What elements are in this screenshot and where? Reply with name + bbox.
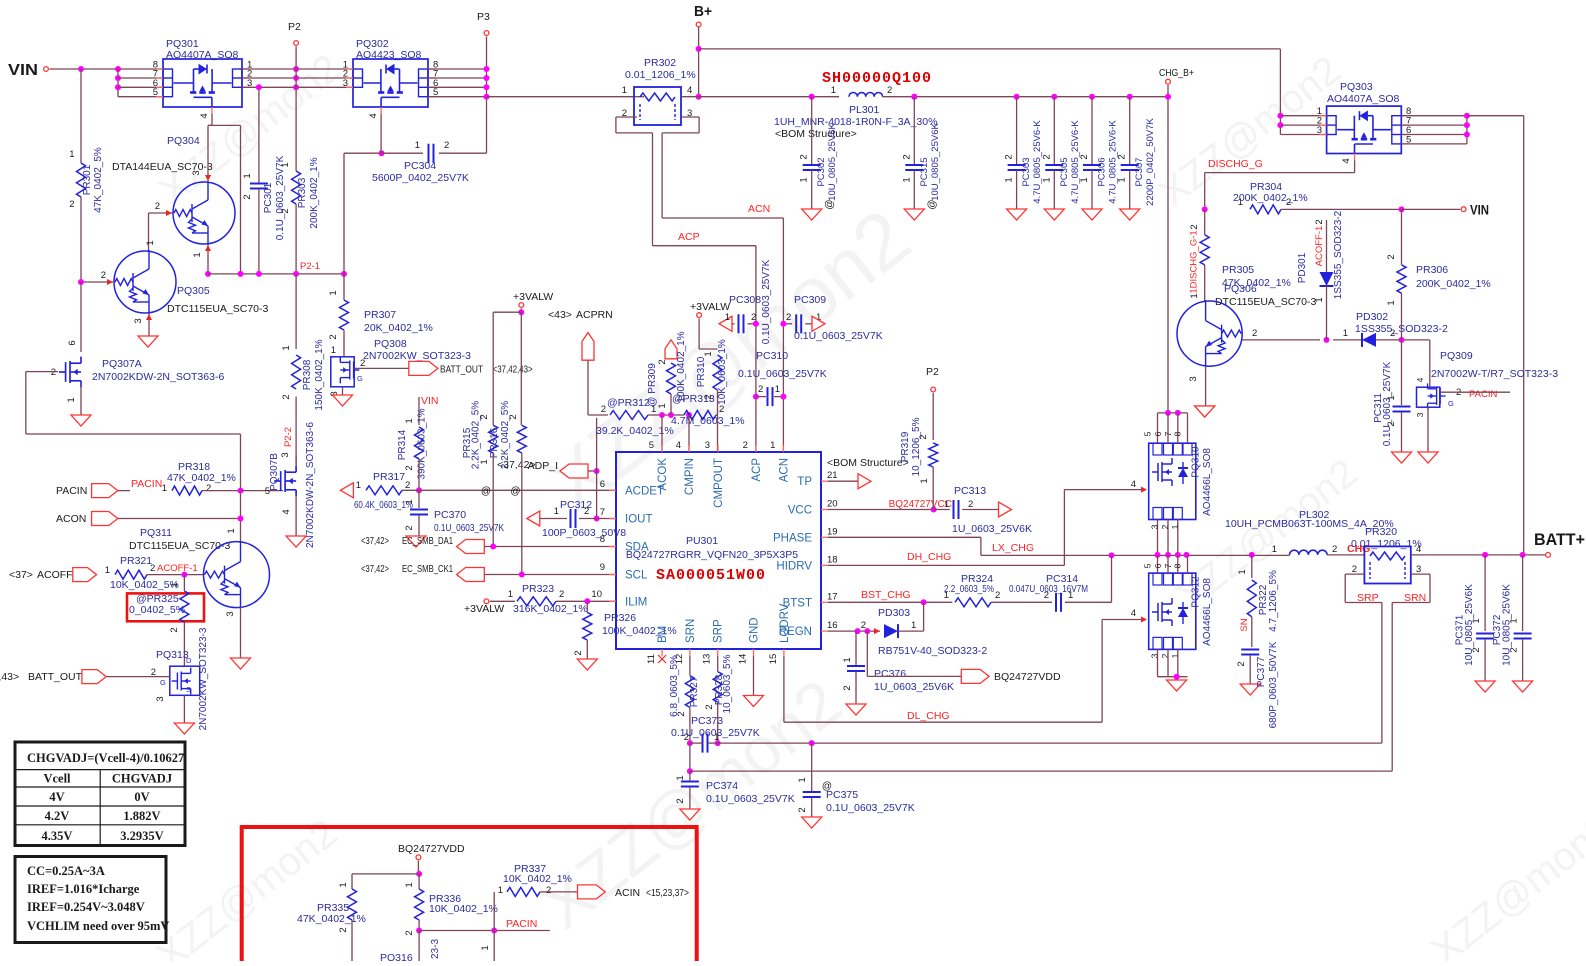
- svg-text:<37,42>: <37,42>: [361, 535, 389, 547]
- svg-text:0V: 0V: [134, 790, 149, 804]
- svg-text:100P_0603_50V8: 100P_0603_50V8: [542, 527, 626, 539]
- svg-text:<43>: <43>: [548, 309, 572, 321]
- svg-text:@PR312: @PR312: [607, 397, 650, 409]
- svg-text:2N7002KDW-2N_SOT363-6: 2N7002KDW-2N_SOT363-6: [305, 422, 316, 548]
- svg-text:2: 2: [1041, 154, 1052, 159]
- svg-text:1U_0603_25V6K: 1U_0603_25V6K: [874, 681, 954, 693]
- svg-text:ACOFF-1: ACOFF-1: [157, 563, 198, 574]
- svg-text:+3VALW: +3VALW: [513, 291, 553, 303]
- svg-text:VIN: VIN: [1470, 202, 1489, 218]
- svg-text:2: 2: [684, 732, 689, 743]
- svg-text:PC301: PC301: [263, 182, 274, 213]
- svg-text:1: 1: [770, 440, 775, 451]
- svg-text:SRN: SRN: [1404, 592, 1426, 604]
- svg-text:PR301: PR301: [82, 164, 93, 195]
- svg-text:1: 1: [356, 480, 361, 491]
- svg-text:1: 1: [1237, 569, 1248, 574]
- svg-text:G: G: [160, 678, 166, 687]
- svg-text:DTC115EUA_SC70-3: DTC115EUA_SC70-3: [1215, 296, 1317, 308]
- svg-text:5: 5: [649, 440, 654, 451]
- svg-text:BM: BM: [657, 626, 669, 643]
- svg-text:<BOM Structure>: <BOM Structure>: [827, 457, 909, 469]
- svg-text:3.2935V: 3.2935V: [120, 829, 163, 843]
- svg-text:5600P_0402_25V7K: 5600P_0402_25V7K: [372, 172, 469, 184]
- svg-text:P2: P2: [926, 366, 939, 378]
- svg-text:+3VALW: +3VALW: [464, 603, 504, 615]
- svg-text:@: @: [824, 199, 835, 209]
- svg-text:PQ313: PQ313: [156, 649, 189, 661]
- svg-text:10K_0603_1%: 10K_0603_1%: [717, 339, 728, 405]
- svg-text:PD303: PD303: [878, 607, 910, 619]
- svg-text:ACON: ACON: [56, 513, 86, 525]
- svg-text:1: 1: [226, 528, 237, 533]
- svg-text:200K_0402_1%: 200K_0402_1%: [309, 157, 320, 228]
- svg-text:PD301: PD301: [1297, 252, 1308, 283]
- svg-text:PQ306: PQ306: [1224, 283, 1257, 295]
- svg-text:SN: SN: [1239, 618, 1250, 631]
- svg-text:BQ24727VDD: BQ24727VDD: [994, 671, 1061, 683]
- svg-text:4.2V: 4.2V: [45, 809, 70, 823]
- svg-text:2: 2: [242, 194, 253, 199]
- svg-text:1: 1: [338, 882, 349, 887]
- svg-text:1: 1: [415, 140, 420, 151]
- svg-text:IOUT: IOUT: [625, 514, 652, 526]
- svg-text:0.1U_0603_25V7K: 0.1U_0603_25V7K: [794, 330, 883, 342]
- svg-text:2: 2: [328, 334, 339, 339]
- svg-text:10U_0805_25V6K: 10U_0805_25V6K: [930, 123, 941, 201]
- svg-text:PR317: PR317: [373, 471, 405, 483]
- svg-text:PQ305: PQ305: [177, 285, 210, 297]
- svg-text:200K_0402_1%: 200K_0402_1%: [1233, 192, 1308, 204]
- svg-text:PR307: PR307: [364, 309, 396, 321]
- svg-text:VIN: VIN: [421, 395, 439, 407]
- svg-text:1: 1: [1117, 177, 1128, 182]
- svg-text:19: 19: [827, 526, 838, 537]
- svg-text:4.7_1206_5%: 4.7_1206_5%: [1268, 570, 1279, 632]
- svg-text:1: 1: [1041, 177, 1052, 182]
- svg-text:1: 1: [911, 620, 916, 631]
- svg-text:2: 2: [743, 440, 748, 451]
- svg-text:VCHLIM need over 95mV: VCHLIM need over 95mV: [27, 919, 169, 933]
- svg-text:9: 9: [600, 562, 605, 573]
- svg-text:ACOFF-1: ACOFF-1: [1314, 226, 1325, 267]
- svg-text:BQ24727VCC: BQ24727VCC: [889, 499, 952, 510]
- svg-text:6: 6: [600, 479, 605, 490]
- svg-text:AO4423_SO8: AO4423_SO8: [356, 49, 422, 61]
- svg-text:PR308: PR308: [302, 359, 313, 390]
- svg-text:680P_0603_50V7K: 680P_0603_50V7K: [1268, 641, 1279, 728]
- svg-text:BQ24727RGRR_VQFN20_3P5X3P5: BQ24727RGRR_VQFN20_3P5X3P5: [626, 549, 798, 561]
- svg-text:5: 5: [153, 87, 158, 98]
- svg-text:2: 2: [1390, 328, 1395, 339]
- svg-text:1: 1: [66, 397, 77, 402]
- svg-text:PR321: PR321: [120, 555, 152, 567]
- svg-text:PC313: PC313: [954, 485, 986, 497]
- svg-text:1: 1: [1079, 177, 1090, 182]
- svg-text:6.8_0603_5%: 6.8_0603_5%: [669, 655, 680, 717]
- svg-text:ACPRN: ACPRN: [576, 309, 613, 321]
- svg-text:2: 2: [404, 525, 415, 530]
- svg-text:4: 4: [687, 85, 692, 96]
- svg-text:4: 4: [368, 113, 379, 118]
- svg-text:2: 2: [155, 201, 160, 212]
- svg-text:4.7M_0603_1%: 4.7M_0603_1%: [671, 415, 745, 427]
- svg-text:1: 1: [169, 582, 180, 587]
- svg-text:PR323: PR323: [522, 583, 554, 595]
- svg-text:1: 1: [498, 885, 503, 896]
- svg-text:2N7002W-T/R7_SOT323-3: 2N7002W-T/R7_SOT323-3: [1431, 368, 1558, 380]
- svg-text:2: 2: [675, 798, 686, 803]
- svg-text:2: 2: [1160, 524, 1170, 529]
- svg-text:1.882V: 1.882V: [123, 809, 160, 823]
- svg-text:4.35V: 4.35V: [42, 829, 73, 843]
- svg-text:10U_0805_25V6K: 10U_0805_25V6K: [827, 123, 838, 201]
- svg-text:2: 2: [797, 807, 808, 812]
- svg-text:2N7002KW_SOT323-3: 2N7002KW_SOT323-3: [363, 350, 471, 362]
- svg-text:18: 18: [827, 554, 838, 565]
- svg-text:PC374: PC374: [706, 780, 738, 792]
- svg-text:PQ310: PQ310: [1191, 446, 1202, 478]
- svg-text:SRN: SRN: [685, 619, 697, 643]
- svg-text:1: 1: [328, 290, 339, 295]
- svg-text:2: 2: [360, 358, 365, 369]
- svg-text:1: 1: [404, 499, 415, 504]
- svg-text:1: 1: [242, 173, 253, 178]
- svg-text:3: 3: [343, 78, 348, 89]
- svg-text:P2: P2: [288, 21, 301, 33]
- svg-text:AO4466L_SO8: AO4466L_SO8: [1202, 578, 1213, 646]
- svg-text:<37,42>: <37,42>: [361, 563, 389, 575]
- svg-text:AO4466L_SO8: AO4466L_SO8: [1202, 448, 1213, 516]
- svg-text:4: 4: [1131, 608, 1136, 619]
- svg-text:2: 2: [546, 885, 551, 896]
- svg-text:CHG_B+: CHG_B+: [1159, 68, 1194, 79]
- svg-text:2: 2: [206, 483, 211, 494]
- svg-text:1: 1: [479, 459, 490, 464]
- svg-text:AO4407A_SO8: AO4407A_SO8: [166, 49, 239, 61]
- svg-text:1: 1: [714, 732, 719, 743]
- svg-text:6: 6: [67, 340, 78, 345]
- svg-text:10_1206_5%: 10_1206_5%: [911, 417, 922, 476]
- svg-text:PR314: PR314: [397, 429, 408, 460]
- svg-text:PC305: PC305: [1059, 157, 1070, 186]
- svg-text:1: 1: [842, 657, 853, 662]
- svg-text:1: 1: [554, 506, 559, 517]
- svg-text:SRP: SRP: [713, 619, 725, 643]
- svg-text:3: 3: [1188, 376, 1199, 381]
- svg-text:2: 2: [1079, 154, 1090, 159]
- svg-text:P2-2: P2-2: [283, 427, 294, 447]
- svg-text:ILIM: ILIM: [625, 596, 647, 608]
- svg-text:PR319: PR319: [900, 431, 911, 462]
- svg-text:EC_SMB_CK1: EC_SMB_CK1: [402, 563, 453, 575]
- svg-text:1: 1: [901, 177, 912, 182]
- svg-text:@ PR309: @ PR309: [647, 363, 658, 407]
- svg-text:2: 2: [1236, 661, 1247, 666]
- svg-text:2: 2: [51, 367, 56, 378]
- svg-text:1: 1: [404, 418, 415, 423]
- svg-text:PC307: PC307: [1134, 157, 1145, 186]
- svg-text:PQ311: PQ311: [140, 527, 172, 539]
- svg-text:2: 2: [799, 154, 810, 159]
- svg-text:2: 2: [169, 627, 180, 632]
- svg-text:2: 2: [887, 85, 892, 96]
- svg-text:1UH_MNR-4018-1R0N-F_3A_30%: 1UH_MNR-4018-1R0N-F_3A_30%: [774, 116, 937, 128]
- svg-text:TP: TP: [797, 476, 812, 488]
- svg-text:2: 2: [861, 620, 866, 631]
- svg-text:PC310: PC310: [756, 350, 788, 362]
- svg-text:P3: P3: [477, 11, 490, 23]
- svg-text:47K_0402_1%: 47K_0402_1%: [297, 913, 366, 925]
- svg-text:PC303: PC303: [1021, 157, 1032, 186]
- svg-text:PR302: PR302: [644, 57, 676, 69]
- svg-text:1: 1: [799, 177, 810, 182]
- svg-text:PC376: PC376: [874, 668, 906, 680]
- svg-text:1: 1: [162, 483, 167, 494]
- svg-text:7: 7: [1163, 563, 1173, 568]
- svg-text:2N7002KW_SOT323-3: 2N7002KW_SOT323-3: [198, 627, 209, 730]
- svg-text:PR328: PR328: [714, 674, 725, 705]
- svg-text:HIDRV: HIDRV: [776, 560, 812, 572]
- svg-text:2: 2: [1332, 544, 1337, 555]
- svg-text:SH00000Q100: SH00000Q100: [822, 70, 932, 87]
- svg-text:CHGVADJ=(Vcell-4)/0.10627: CHGVADJ=(Vcell-4)/0.10627: [27, 751, 184, 765]
- svg-text:2: 2: [1189, 224, 1200, 229]
- svg-text:6: 6: [1153, 431, 1163, 436]
- svg-text:2: 2: [901, 154, 912, 159]
- svg-text:PR303: PR303: [297, 177, 308, 208]
- svg-text:316K_0402_1%: 316K_0402_1%: [513, 603, 588, 615]
- svg-text:VIN: VIN: [8, 62, 38, 79]
- svg-text:390K_0603_1%: 390K_0603_1%: [417, 408, 428, 479]
- svg-text:7: 7: [1163, 431, 1173, 436]
- svg-text:100K_0402_1%: 100K_0402_1%: [676, 331, 687, 402]
- svg-text:3: 3: [1415, 412, 1425, 417]
- svg-text:PQ304: PQ304: [167, 135, 200, 147]
- svg-text:IREF=1.016*Icharge: IREF=1.016*Icharge: [27, 882, 140, 896]
- svg-text:14: 14: [738, 654, 749, 665]
- svg-text:VCC: VCC: [788, 505, 812, 517]
- svg-text:PC315: PC315: [919, 157, 930, 186]
- svg-text:ADP_I: ADP_I: [528, 460, 558, 472]
- svg-text:3: 3: [280, 452, 291, 457]
- svg-text:1: 1: [944, 499, 949, 510]
- svg-text:2: 2: [1314, 219, 1325, 224]
- svg-text:23-3: 23-3: [430, 939, 441, 959]
- svg-text:G: G: [1448, 399, 1454, 408]
- svg-text:2: 2: [404, 930, 415, 935]
- svg-text:2: 2: [69, 199, 74, 210]
- svg-text:PQ307A: PQ307A: [102, 358, 142, 370]
- svg-text:PR310: PR310: [696, 356, 707, 387]
- svg-text:2: 2: [404, 465, 415, 470]
- svg-text:20K_0402_1%: 20K_0402_1%: [364, 322, 433, 334]
- svg-text:PC375: PC375: [826, 789, 858, 801]
- svg-text:2: 2: [601, 404, 606, 415]
- svg-text:1: 1: [725, 312, 730, 323]
- svg-text:2: 2: [1004, 154, 1015, 159]
- svg-text:1: 1: [1004, 177, 1015, 182]
- svg-text:PR326: PR326: [604, 612, 636, 624]
- svg-text:8: 8: [1173, 563, 1183, 568]
- svg-text:0.1U_0603_25V7K: 0.1U_0603_25V7K: [738, 368, 827, 380]
- svg-text:1: 1: [280, 162, 291, 167]
- svg-text:2: 2: [842, 685, 853, 690]
- svg-text:2: 2: [1386, 254, 1397, 259]
- svg-text:4.7U_0805_25V6-K: 4.7U_0805_25V6-K: [1108, 120, 1119, 204]
- svg-text:EC_SMB_DA1: EC_SMB_DA1: [402, 535, 453, 547]
- svg-text:1: 1: [1272, 544, 1277, 555]
- svg-text:ACOK: ACOK: [657, 458, 669, 491]
- svg-text:CHGVADJ: CHGVADJ: [112, 772, 172, 786]
- svg-text:PC377: PC377: [1256, 656, 1267, 687]
- svg-text:1: 1: [105, 565, 110, 576]
- svg-text:10K_0402_1%: 10K_0402_1%: [503, 873, 572, 885]
- svg-text:<15,23,37>: <15,23,37>: [646, 887, 689, 899]
- svg-text:15: 15: [768, 654, 779, 665]
- svg-text:ACN: ACN: [748, 203, 770, 215]
- svg-text:ACP: ACP: [751, 458, 763, 482]
- svg-text:BQ24727VDD: BQ24727VDD: [398, 843, 465, 855]
- svg-text:2: 2: [444, 140, 449, 151]
- svg-text:3: 3: [705, 440, 710, 451]
- svg-text:@: @: [927, 199, 938, 209]
- svg-text:3: 3: [133, 318, 144, 323]
- svg-text:1DISCHG_G-1: 1DISCHG_G-1: [1189, 230, 1200, 293]
- svg-text:1: 1: [192, 252, 203, 257]
- svg-text:2200P_0402_50V7K: 2200P_0402_50V7K: [1145, 117, 1156, 205]
- svg-text:PR306: PR306: [1416, 264, 1448, 276]
- svg-text:7: 7: [600, 507, 605, 518]
- svg-text:PQ312: PQ312: [1191, 576, 1202, 608]
- svg-text:PHASE: PHASE: [773, 532, 812, 544]
- svg-text:1: 1: [1170, 524, 1180, 529]
- svg-text:2: 2: [280, 208, 291, 213]
- svg-text:<37,42,43>: <37,42,43>: [493, 364, 533, 376]
- svg-text:1: 1: [675, 775, 686, 780]
- svg-text:3: 3: [1317, 125, 1322, 136]
- svg-text:150K_0402_1%: 150K_0402_1%: [314, 339, 325, 410]
- svg-text:P2-1: P2-1: [300, 261, 320, 272]
- svg-text:DL_CHG: DL_CHG: [907, 710, 950, 722]
- svg-text:1: 1: [1343, 328, 1348, 339]
- svg-text:PQ307B: PQ307B: [269, 453, 280, 491]
- svg-text:2: 2: [1352, 564, 1357, 575]
- svg-text:PACIN: PACIN: [131, 478, 162, 490]
- svg-text:0.1U_0603_25V7K: 0.1U_0603_25V7K: [761, 259, 772, 344]
- svg-text:@: @: [481, 486, 491, 497]
- svg-text:<37>: <37>: [9, 569, 33, 581]
- svg-text:2: 2: [703, 394, 714, 399]
- svg-text:1: 1: [281, 345, 292, 350]
- svg-text:4: 4: [1131, 479, 1136, 490]
- svg-text:ACP: ACP: [678, 231, 700, 243]
- svg-text:PR320: PR320: [1365, 526, 1397, 538]
- svg-text:2: 2: [1117, 154, 1128, 159]
- svg-text:PC308: PC308: [729, 294, 761, 306]
- svg-text:3: 3: [225, 611, 236, 616]
- svg-text:0.01_1206_1%: 0.01_1206_1%: [625, 69, 696, 81]
- svg-text:2: 2: [150, 563, 155, 574]
- svg-text:2: 2: [704, 704, 715, 709]
- svg-text:PR327: PR327: [689, 676, 700, 707]
- svg-text:PC309: PC309: [794, 294, 826, 306]
- svg-text:PU301: PU301: [686, 535, 718, 547]
- svg-text:ACOFF: ACOFF: [37, 569, 73, 581]
- svg-text:2.2K_0402_5%: 2.2K_0402_5%: [471, 401, 482, 470]
- svg-text:ACN: ACN: [778, 458, 790, 482]
- svg-text:RB751V-40_SOD323-2: RB751V-40_SOD323-2: [878, 645, 987, 657]
- svg-text:4.7U_0805_25V6-K: 4.7U_0805_25V6-K: [1032, 120, 1043, 204]
- svg-text:10: 10: [591, 589, 602, 600]
- svg-text:2: 2: [786, 312, 791, 323]
- svg-text:1: 1: [831, 85, 836, 96]
- svg-text:1: 1: [919, 478, 930, 483]
- svg-text:1: 1: [331, 345, 336, 356]
- svg-text:<37,42,43>: <37,42,43>: [0, 671, 19, 683]
- svg-text:4: 4: [281, 509, 292, 514]
- svg-text:200K_0402_1%: 200K_0402_1%: [1416, 278, 1491, 290]
- svg-text:1: 1: [1386, 300, 1397, 305]
- svg-text:2N7002KDW-2N_SOT363-6: 2N7002KDW-2N_SOT363-6: [92, 371, 224, 383]
- svg-text:PC373: PC373: [691, 715, 723, 727]
- svg-text:1: 1: [1189, 293, 1200, 298]
- svg-text:<BOM Structure>: <BOM Structure>: [775, 128, 857, 140]
- svg-text:2: 2: [758, 384, 763, 395]
- svg-text:PL301: PL301: [849, 104, 880, 116]
- svg-text:2: 2: [573, 650, 584, 655]
- svg-text:13: 13: [702, 654, 713, 665]
- svg-text:1: 1: [480, 945, 491, 950]
- svg-text:4: 4: [1416, 544, 1421, 555]
- svg-text:4V: 4V: [49, 790, 64, 804]
- svg-text:2: 2: [968, 499, 973, 510]
- svg-text:17: 17: [827, 591, 838, 602]
- svg-text:1SS355_SOD323-2: 1SS355_SOD323-2: [1333, 210, 1344, 299]
- svg-text:0.1U_0603_25V7K: 0.1U_0603_25V7K: [706, 793, 795, 805]
- svg-text:PACIN: PACIN: [56, 485, 87, 497]
- svg-text:SA000051W00: SA000051W00: [656, 567, 766, 584]
- svg-text:4.7U_0805_25V6-K: 4.7U_0805_25V6-K: [1070, 120, 1081, 204]
- svg-text:S: S: [186, 685, 191, 694]
- svg-text:0.1U_0603_25V7K: 0.1U_0603_25V7K: [826, 802, 915, 814]
- svg-text:LX_CHG: LX_CHG: [992, 542, 1034, 554]
- svg-text:1: 1: [508, 589, 513, 600]
- svg-text:10K_0402_1%: 10K_0402_1%: [429, 903, 498, 915]
- svg-text:1: 1: [145, 240, 156, 245]
- svg-text:47K_0402_1%: 47K_0402_1%: [167, 472, 236, 484]
- svg-text:PC302: PC302: [816, 157, 827, 186]
- svg-text:AO4407A_SO8: AO4407A_SO8: [1327, 93, 1400, 105]
- svg-text:2: 2: [995, 590, 1000, 601]
- svg-text:ACIN: ACIN: [615, 887, 640, 899]
- svg-text:PC306: PC306: [1097, 157, 1108, 186]
- svg-text:CMPIN: CMPIN: [684, 458, 696, 495]
- svg-text:2: 2: [657, 359, 668, 364]
- svg-text:PACIN: PACIN: [1469, 389, 1497, 400]
- svg-text:47K_0402_5%: 47K_0402_5%: [93, 147, 104, 213]
- svg-text:5: 5: [1143, 431, 1153, 436]
- svg-text:PQ309: PQ309: [1440, 350, 1473, 362]
- svg-text:8: 8: [1173, 431, 1183, 436]
- svg-text:PC304: PC304: [404, 160, 436, 172]
- svg-text:PR305: PR305: [1222, 264, 1254, 276]
- svg-text:DISCHG_G: DISCHG_G: [1208, 158, 1263, 170]
- svg-text:PQ308: PQ308: [374, 338, 407, 350]
- svg-text:PC370: PC370: [434, 509, 466, 521]
- svg-text:IREF=0.254V~3.048V: IREF=0.254V~3.048V: [27, 900, 145, 914]
- svg-text:2: 2: [281, 394, 292, 399]
